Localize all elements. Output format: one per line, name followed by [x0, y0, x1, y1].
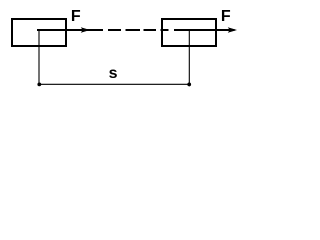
wire: solid line of action through right block	[174, 29, 235, 31]
block B (right body outline)	[162, 19, 216, 46]
block A (left body outline)	[12, 19, 66, 46]
svg-text:s: s	[109, 65, 118, 82]
extension line from right application point	[188, 31, 190, 86]
dimension end dot (right)	[187, 83, 191, 87]
arrowhead of force F at right block	[228, 27, 237, 32]
arrowhead of force F at left block	[81, 27, 90, 32]
dimension line s	[39, 83, 190, 85]
wire: solid line of action from left application point	[37, 29, 103, 31]
wire: dashed line of action (translation path)	[108, 29, 169, 31]
extension line from left application point	[38, 30, 40, 86]
dimension end dot (left)	[37, 83, 41, 87]
svg-text:F: F	[71, 8, 81, 25]
svg-text:F: F	[221, 8, 231, 25]
